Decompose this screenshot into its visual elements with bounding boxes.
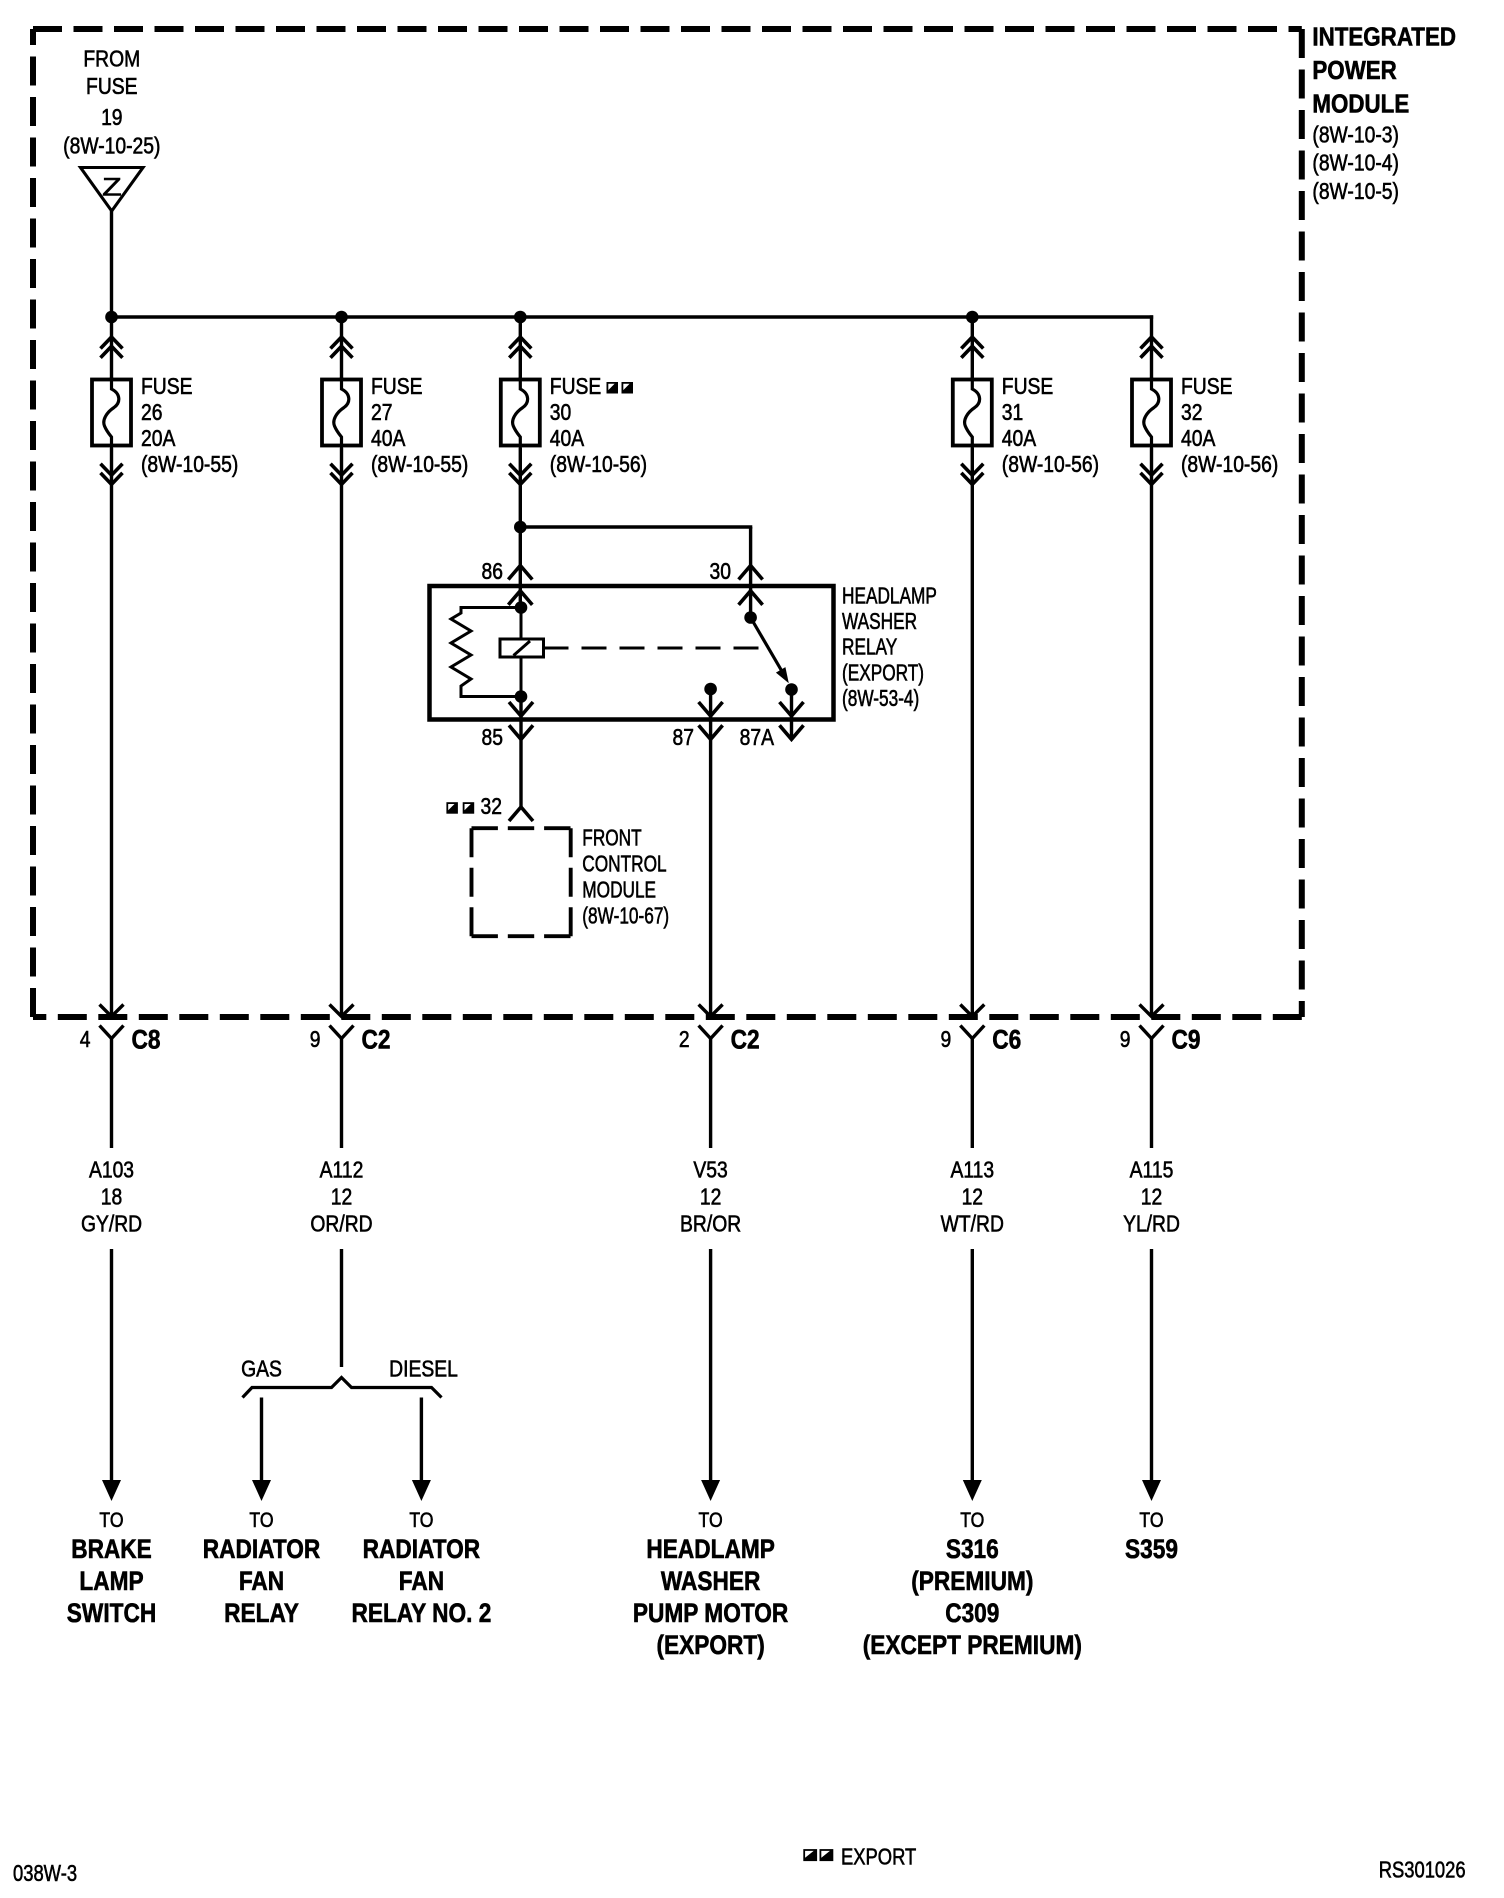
fuse F30 value label: [550, 375, 647, 478]
svg-text:FRONT: FRONT: [582, 826, 641, 851]
svg-text:(PREMIUM): (PREMIUM): [911, 1566, 1033, 1596]
svg-text:18: 18: [101, 1185, 122, 1210]
wire: below connector C2: [340, 1039, 343, 1149]
svg-text:C2: C2: [731, 1025, 760, 1055]
svg-text:86: 86: [482, 560, 503, 585]
node: relay pin 87 internal: [704, 683, 717, 696]
wire: fuse 19 feed down to bus: [110, 211, 113, 317]
svg-text:WT/RD: WT/RD: [941, 1212, 1004, 1237]
svg-text:EXPORT: EXPORT: [841, 1845, 917, 1870]
svg-text:A112: A112: [320, 1158, 364, 1183]
svg-text:12: 12: [700, 1185, 721, 1210]
relay U1 (headlamp washer relay) box: [430, 586, 834, 720]
svg-text:RS301026: RS301026: [1379, 1858, 1466, 1883]
wire: below connector C2: [709, 1039, 712, 1149]
pin 30 chevrons: [739, 566, 763, 580]
svg-text:TO: TO: [699, 1509, 723, 1533]
bus wire (fuse feed): [110, 315, 1153, 318]
fuse F26: [92, 377, 131, 448]
wire label A112 12 OR/RD: [310, 1158, 372, 1237]
svg-text:FAN: FAN: [399, 1566, 444, 1596]
svg-text:Z: Z: [102, 174, 122, 202]
svg-text:FUSE: FUSE: [371, 375, 422, 400]
pin 85 chevrons: [509, 702, 533, 716]
pin 86 chevrons: [508, 566, 532, 580]
junction dot on bus at branch 4: [966, 311, 979, 324]
wire: relay pin 85 to FCM pin 32: [519, 697, 522, 808]
svg-text:C309: C309: [945, 1598, 999, 1628]
svg-text:(EXPORT): (EXPORT): [842, 661, 924, 686]
svg-text:FROM: FROM: [83, 47, 140, 72]
svg-text:WASHER: WASHER: [842, 610, 917, 635]
wire: diesel branch: [420, 1398, 423, 1485]
svg-text:(8W-10-3): (8W-10-3): [1312, 123, 1399, 148]
arrow to radiator fan relay: [252, 1480, 271, 1501]
svg-text:BR/OR: BR/OR: [680, 1212, 741, 1237]
svg-text:YL/RD: YL/RD: [1123, 1212, 1180, 1237]
integrated power module boundary (dashed box): [33, 29, 1302, 1017]
svg-text:(8W-10-56): (8W-10-56): [1002, 453, 1099, 478]
svg-text:TO: TO: [249, 1509, 273, 1533]
svg-text:(8W-10-4): (8W-10-4): [1312, 151, 1399, 176]
svg-text:9: 9: [941, 1028, 952, 1053]
svg-text:C8: C8: [132, 1025, 161, 1055]
destination label: BRAKE LAMP SWITCH: [67, 1509, 156, 1629]
fuse F30: [501, 377, 540, 448]
svg-text:038W-3: 038W-3: [13, 1861, 77, 1886]
wire: A112 down to gas/diesel split: [340, 1249, 343, 1367]
svg-text:FUSE: FUSE: [1181, 375, 1232, 400]
svg-text:HEADLAMP: HEADLAMP: [842, 584, 937, 609]
relay actuation dashed link: [544, 647, 771, 650]
FCM pin 32 chevron: [509, 807, 533, 821]
wire: junction to relay pin 30 (horizontal): [519, 525, 753, 528]
svg-text:FUSE: FUSE: [1002, 375, 1053, 400]
wire: pin 87 stub: [709, 689, 712, 1016]
FCM name label: [582, 826, 669, 929]
wire: V53 to pump motor: [709, 1249, 712, 1484]
fuse 31 input chevrons: [961, 337, 983, 358]
svg-text:OR/RD: OR/RD: [310, 1212, 372, 1237]
node: relay pin 87A internal: [785, 683, 798, 696]
connector C2 pin 9 (IPM border): [330, 1005, 354, 1039]
fuse F32: [1132, 377, 1171, 448]
relay coil symbol: [500, 639, 544, 657]
destination label: RADIATOR FAN RELAY: [203, 1509, 321, 1629]
svg-text:HEADLAMP: HEADLAMP: [646, 1534, 774, 1564]
fuse 31 output chevrons: [961, 464, 983, 485]
wire label A113 12 WT/RD: [941, 1158, 1004, 1237]
svg-text:(8W-10-25): (8W-10-25): [63, 134, 160, 159]
svg-text:(8W-10-56): (8W-10-56): [1181, 453, 1278, 478]
junction dot on bus at branch 2: [335, 311, 348, 324]
node: relay pin 86 internal: [515, 601, 528, 614]
svg-text:INTEGRATED: INTEGRATED: [1312, 23, 1456, 52]
arrow to S359: [1142, 1480, 1161, 1501]
fuse F31: [953, 377, 992, 448]
wire label A103 18 GY/RD: [81, 1158, 142, 1237]
arrow to S316: [963, 1480, 982, 1501]
fuse 27 output chevrons: [331, 464, 353, 485]
svg-text:31: 31: [1002, 401, 1023, 426]
fuse 26 output chevrons: [101, 464, 123, 485]
wire: fuse 30 down to relay pin 86: [519, 448, 522, 608]
gas/diesel split brace: [243, 1378, 442, 1398]
svg-text:(8W-10-56): (8W-10-56): [550, 453, 647, 478]
svg-text:C2: C2: [362, 1025, 391, 1055]
from fuse 19 label: [63, 47, 160, 159]
wire label V53 12 BR/OR: [680, 1158, 741, 1237]
wire: A113 to S316: [971, 1249, 974, 1484]
relay switch arm: [751, 618, 789, 684]
svg-text:2: 2: [679, 1028, 690, 1053]
fuse 26 input chevrons: [101, 337, 123, 358]
svg-text:40A: 40A: [371, 427, 406, 452]
svg-text:9: 9: [310, 1028, 321, 1053]
svg-text:FUSE: FUSE: [550, 375, 601, 400]
svg-text:C9: C9: [1172, 1025, 1201, 1055]
fuse 30 output chevrons: [509, 464, 531, 485]
svg-text:FUSE: FUSE: [86, 75, 137, 100]
wire: fuse 31 to connector C6: [971, 448, 974, 1015]
fuse 27 input chevrons: [331, 337, 353, 358]
svg-text:RELAY: RELAY: [224, 1598, 299, 1628]
svg-text:MODULE: MODULE: [582, 878, 656, 903]
destination label: HEADLAMP WASHER PUMP MOTOR (EXPORT): [633, 1509, 788, 1661]
wire: bus to fuse 26: [110, 317, 113, 378]
svg-text:12: 12: [962, 1185, 983, 1210]
svg-text:30: 30: [710, 560, 731, 585]
svg-text:POWER: POWER: [1312, 56, 1396, 85]
svg-text:RELAY NO. 2: RELAY NO. 2: [351, 1598, 491, 1628]
wire: gas branch: [260, 1398, 263, 1485]
svg-text:BRAKE: BRAKE: [71, 1534, 152, 1564]
svg-text:GAS: GAS: [241, 1357, 282, 1382]
svg-text:S359: S359: [1125, 1534, 1178, 1564]
fuse 30 input chevrons: [509, 337, 531, 358]
svg-text:DIESEL: DIESEL: [389, 1357, 458, 1382]
connector symbol Z (from fuse 19): [81, 168, 144, 212]
fuse F26 value label: [141, 375, 238, 478]
destination label: S359: [1125, 1509, 1178, 1565]
svg-text:FUSE: FUSE: [141, 375, 192, 400]
svg-text:85: 85: [482, 726, 503, 751]
svg-text:(8W-10-55): (8W-10-55): [371, 453, 468, 478]
svg-text:40A: 40A: [1002, 427, 1037, 452]
connector C9 pin 9 (IPM border): [1140, 1005, 1164, 1039]
svg-text:C6: C6: [992, 1025, 1021, 1055]
wire: relay coil vertical: [520, 608, 523, 697]
svg-text:RADIATOR: RADIATOR: [203, 1534, 321, 1564]
svg-text:9: 9: [1120, 1028, 1131, 1053]
svg-text:PUMP MOTOR: PUMP MOTOR: [633, 1598, 788, 1628]
svg-text:27: 27: [371, 401, 392, 426]
svg-text:(8W-10-5): (8W-10-5): [1312, 179, 1399, 204]
junction dot (fuse 30 branch split): [514, 521, 527, 534]
wire: below connector C6: [971, 1039, 974, 1149]
svg-text:TO: TO: [99, 1509, 123, 1533]
fuse 32 output chevrons: [1141, 464, 1163, 485]
pin 87 chevrons: [699, 702, 723, 716]
wire: bus corner down to fuse 32: [1150, 315, 1153, 378]
svg-text:(EXCEPT PREMIUM): (EXCEPT PREMIUM): [863, 1630, 1082, 1660]
wire: A115 to S359: [1150, 1249, 1153, 1484]
relay coil resistor: [451, 608, 521, 697]
svg-text:RADIATOR: RADIATOR: [363, 1534, 481, 1564]
connector C8 pin 4 (IPM border): [100, 1005, 124, 1039]
wire: fuse 27 to connector C2: [340, 448, 343, 1015]
svg-text:40A: 40A: [1181, 427, 1216, 452]
arrow to radiator fan relay no. 2: [412, 1480, 431, 1501]
wire: A103 to brake lamp switch: [110, 1249, 113, 1484]
fuse F32 value label: [1181, 375, 1278, 478]
wire: fuse 32 to connector C9: [1150, 448, 1153, 1015]
export marks (fuse 30): [607, 382, 634, 394]
wire label A115 12 YL/RD: [1123, 1158, 1180, 1237]
svg-text:V53: V53: [693, 1158, 727, 1183]
wire: below connector C9: [1150, 1039, 1153, 1149]
svg-text:4: 4: [80, 1028, 91, 1053]
svg-text:12: 12: [331, 1185, 352, 1210]
svg-text:87A: 87A: [740, 726, 775, 751]
junction dot on bus at branch 3: [514, 311, 527, 324]
svg-text:FAN: FAN: [239, 1566, 284, 1596]
svg-text:TO: TO: [409, 1509, 433, 1533]
fuse 32 input chevrons: [1141, 337, 1163, 358]
svg-text:26: 26: [141, 401, 162, 426]
fuse F31 value label: [1002, 375, 1099, 478]
svg-text:(8W-53-4): (8W-53-4): [842, 687, 919, 712]
wire: bus to fuse 27: [340, 317, 343, 378]
wire: below connector C8: [110, 1039, 113, 1149]
wire: fuse 26 to connector C8: [110, 448, 113, 1015]
svg-text:WASHER: WASHER: [661, 1566, 761, 1596]
svg-text:32: 32: [481, 795, 502, 820]
svg-text:CONTROL: CONTROL: [582, 852, 666, 877]
svg-text:TO: TO: [960, 1509, 984, 1533]
arrow to brake lamp switch: [102, 1480, 121, 1501]
junction dot on bus at branch 1: [105, 311, 118, 324]
svg-text:12: 12: [1141, 1185, 1162, 1210]
svg-text:19: 19: [101, 106, 122, 131]
export marks (pin 32): [446, 802, 474, 814]
svg-text:(8W-10-55): (8W-10-55): [141, 453, 238, 478]
svg-text:87: 87: [673, 726, 694, 751]
wire: pin 87A stub: [790, 689, 793, 738]
svg-text:MODULE: MODULE: [1312, 90, 1409, 119]
svg-text:(8W-10-67): (8W-10-67): [582, 904, 669, 929]
svg-text:A115: A115: [1130, 1158, 1174, 1183]
relay U1 name label: [842, 584, 937, 711]
svg-text:S316: S316: [946, 1534, 999, 1564]
pin 87A chevrons: [780, 702, 804, 716]
svg-text:20A: 20A: [141, 427, 176, 452]
fuse F27 value label: [371, 375, 468, 478]
arrow to headlamp washer pump motor: [701, 1480, 720, 1501]
svg-text:RELAY: RELAY: [842, 635, 898, 660]
svg-text:30: 30: [550, 401, 571, 426]
front control module (dashed box): [472, 828, 571, 936]
wire: bus to fuse 30: [519, 317, 522, 378]
svg-text:32: 32: [1181, 401, 1202, 426]
svg-text:GY/RD: GY/RD: [81, 1212, 142, 1237]
destination label: S316 (PREMIUM) C309 (EXCEPT PREMIUM): [863, 1509, 1082, 1661]
wire: bus to fuse 31: [971, 317, 974, 378]
node: relay common (pin 30): [744, 611, 757, 624]
connector C6 pin 9 (IPM border): [960, 1005, 984, 1039]
export legend marks: [803, 1849, 833, 1861]
svg-text:LAMP: LAMP: [79, 1566, 143, 1596]
fuse F27: [322, 377, 361, 448]
svg-text:SWITCH: SWITCH: [67, 1598, 156, 1628]
svg-text:A103: A103: [89, 1158, 134, 1183]
wire: down to relay pin 30: [749, 527, 752, 618]
node: relay pin 85 internal: [515, 690, 528, 703]
svg-text:40A: 40A: [550, 427, 585, 452]
svg-text:TO: TO: [1139, 1509, 1163, 1533]
svg-text:A113: A113: [950, 1158, 994, 1183]
IPM name label: [1312, 23, 1456, 204]
svg-text:(EXPORT): (EXPORT): [656, 1630, 764, 1660]
destination label: RADIATOR FAN RELAY NO. 2: [351, 1509, 491, 1629]
connector C2 pin 2 (IPM border): [699, 1005, 723, 1039]
